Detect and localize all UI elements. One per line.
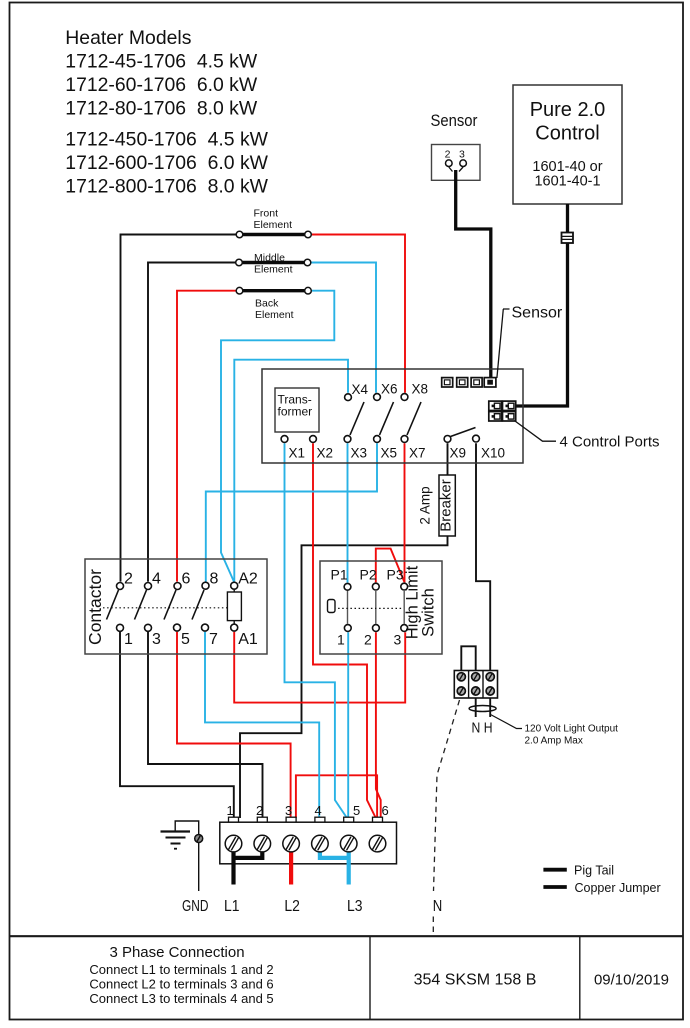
- svg-text:1712-80-1706 8.0 kW: 1712-80-1706 8.0 kW: [65, 98, 258, 120]
- svg-text:3: 3: [152, 631, 161, 648]
- svg-text:N H: N H: [472, 720, 493, 737]
- svg-text:Control: Control: [535, 123, 599, 145]
- svg-text:1712-450-1706 4.5 kW: 1712-450-1706 4.5 kW: [65, 128, 268, 150]
- svg-text:X6: X6: [381, 382, 398, 397]
- svg-text:09/10/2019: 09/10/2019: [594, 972, 669, 989]
- svg-text:5: 5: [181, 631, 190, 648]
- svg-text:Element: Element: [254, 263, 293, 275]
- svg-text:1601-40-1: 1601-40-1: [534, 174, 600, 190]
- svg-text:Connect L2 to terminals 3 and: Connect L2 to terminals 3 and 6: [89, 977, 273, 992]
- svg-text:1: 1: [124, 631, 133, 648]
- svg-text:L2: L2: [284, 898, 300, 915]
- svg-text:A1: A1: [238, 631, 258, 648]
- svg-text:1: 1: [337, 632, 345, 648]
- svg-text:3: 3: [459, 149, 465, 161]
- svg-text:3: 3: [394, 632, 402, 648]
- svg-text:5: 5: [353, 803, 360, 818]
- svg-text:2.0 Amp Max: 2.0 Amp Max: [525, 736, 583, 747]
- svg-text:Pure 2.0: Pure 2.0: [530, 99, 606, 121]
- svg-text:Contactor: Contactor: [85, 569, 105, 645]
- svg-text:N: N: [433, 898, 443, 915]
- svg-text:former: former: [278, 405, 313, 419]
- svg-text:P2: P2: [360, 567, 377, 583]
- svg-text:1712-45-1706 4.5 kW: 1712-45-1706 4.5 kW: [65, 51, 258, 73]
- svg-text:L3: L3: [347, 898, 363, 915]
- svg-text:X7: X7: [409, 446, 426, 461]
- svg-text:Sensor: Sensor: [431, 111, 478, 130]
- svg-text:P3: P3: [387, 567, 404, 583]
- svg-text:Heater Models: Heater Models: [65, 27, 191, 49]
- svg-text:P1: P1: [331, 567, 348, 583]
- svg-text:Element: Element: [254, 219, 293, 231]
- svg-text:Pig Tail: Pig Tail: [574, 864, 614, 878]
- svg-text:Copper Jumper: Copper Jumper: [575, 881, 661, 895]
- svg-text:X10: X10: [481, 446, 505, 461]
- svg-text:Sensor: Sensor: [512, 305, 563, 322]
- svg-text:Element: Element: [255, 309, 294, 321]
- svg-text:X3: X3: [351, 446, 368, 461]
- svg-text:1601-40 or: 1601-40 or: [532, 159, 602, 175]
- svg-text:1712-60-1706 6.0 kW: 1712-60-1706 6.0 kW: [65, 74, 258, 96]
- svg-text:2: 2: [364, 632, 372, 648]
- svg-text:3 Phase Connection: 3 Phase Connection: [109, 944, 244, 961]
- svg-text:Front: Front: [254, 208, 279, 220]
- svg-text:X4: X4: [352, 382, 369, 397]
- svg-text:6: 6: [182, 571, 191, 588]
- svg-text:X2: X2: [317, 446, 334, 461]
- svg-text:1712-800-1706 8.0 kW: 1712-800-1706 8.0 kW: [65, 175, 268, 197]
- svg-text:8: 8: [210, 571, 219, 588]
- svg-text:2: 2: [445, 149, 451, 161]
- svg-text:2: 2: [256, 803, 263, 818]
- svg-text:GND: GND: [182, 898, 209, 915]
- svg-text:120 Volt Light Output: 120 Volt Light Output: [525, 724, 619, 735]
- svg-text:L1: L1: [224, 898, 240, 915]
- svg-text:Back: Back: [255, 297, 279, 309]
- svg-text:3: 3: [285, 803, 292, 818]
- svg-text:A2: A2: [238, 571, 258, 588]
- svg-text:354 SKSM 158 B: 354 SKSM 158 B: [414, 972, 537, 989]
- svg-text:4: 4: [152, 571, 161, 588]
- svg-text:7: 7: [209, 631, 218, 648]
- svg-text:1712-600-1706 6.0 kW: 1712-600-1706 6.0 kW: [65, 152, 268, 174]
- svg-text:6: 6: [382, 803, 389, 818]
- svg-text:2 Amp: 2 Amp: [418, 486, 433, 524]
- svg-text:2: 2: [124, 571, 133, 588]
- svg-text:Connect L3 to terminals 4 and: Connect L3 to terminals 4 and 5: [89, 991, 273, 1006]
- svg-text:X1: X1: [289, 446, 306, 461]
- svg-text:Breaker: Breaker: [438, 479, 455, 532]
- svg-text:X8: X8: [412, 382, 429, 397]
- svg-text:X9: X9: [450, 446, 467, 461]
- svg-text:1: 1: [227, 803, 234, 818]
- svg-text:Switch: Switch: [420, 588, 438, 637]
- svg-text:4: 4: [315, 803, 322, 818]
- svg-text:Connect L1 to terminals 1 and: Connect L1 to terminals 1 and 2: [89, 962, 273, 977]
- svg-text:X5: X5: [381, 446, 398, 461]
- svg-text:4 Control Ports: 4 Control Ports: [560, 434, 660, 451]
